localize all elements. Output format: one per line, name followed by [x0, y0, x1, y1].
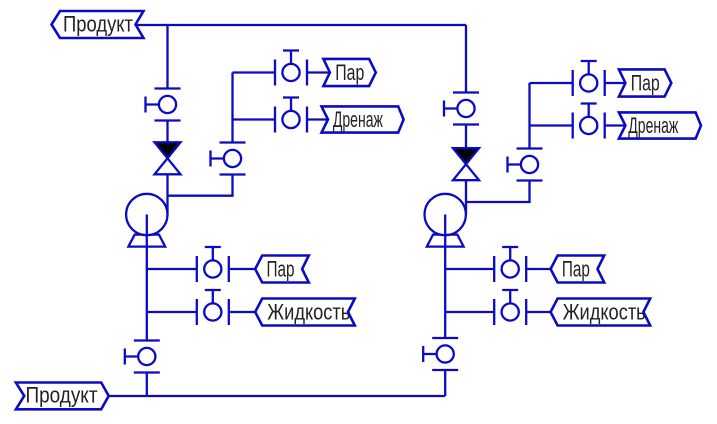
valve V4 (left drain) [275, 98, 307, 133]
flag Пар (right top) [619, 69, 671, 96]
wire right drain branch [530, 124, 626, 126]
wire left drain branch [233, 118, 329, 120]
valve V5 (left steam in) [197, 247, 229, 282]
flag Продукт (top inlet) [52, 11, 144, 38]
pump P2 (right) [425, 194, 466, 247]
wire left pump discharge [146, 247, 148, 396]
wire right pump top branch [466, 83, 530, 202]
wire bottom header [109, 395, 446, 397]
valve V14 (right bottom) [423, 338, 458, 370]
flag Продукт (bottom outlet) [16, 383, 109, 410]
pump P1 (left) [126, 194, 167, 247]
svg-text:Пар: Пар [335, 60, 364, 85]
flag Пар (right bottom) [551, 256, 605, 283]
valve V12 (right steam in) [494, 247, 526, 282]
svg-text:Дренаж: Дренаж [333, 107, 383, 132]
flag Дренаж (right) [619, 112, 701, 138]
check valve CV1 (left) [155, 142, 181, 174]
wire right pump discharge [444, 247, 446, 396]
svg-text:Продукт: Продукт [63, 11, 133, 36]
svg-text:Жидкость: Жидкость [563, 300, 646, 325]
valve V6 (left liquid) [197, 290, 229, 325]
wire left steam branch [233, 71, 330, 73]
valve V10 (right steam) [573, 61, 605, 96]
wire right main drop [465, 25, 467, 215]
valve V13 (right liquid) [494, 290, 526, 325]
valve V2 (left riser valve) [211, 143, 246, 175]
wire right steam-in branch [445, 268, 550, 270]
wire left main drop [166, 25, 168, 215]
valve V1 (left feed valve) [146, 89, 181, 121]
svg-text:Пар: Пар [631, 71, 660, 96]
valve V8 (right feed valve) [444, 93, 479, 125]
wire left pump top branch [168, 73, 233, 196]
wire right liquid branch [445, 311, 550, 313]
svg-text:Продукт: Продукт [26, 383, 98, 408]
flag Жидкость (right) [551, 299, 651, 326]
svg-text:Пар: Пар [562, 257, 590, 282]
flag Жидкость (left) [255, 299, 355, 326]
wire top header [136, 24, 467, 26]
wire left steam-in branch [147, 268, 255, 270]
flag Пар (left bottom) [255, 256, 309, 283]
svg-text:Пар: Пар [267, 257, 295, 282]
wire right steam branch [530, 82, 626, 84]
valve V7 (left bottom) [125, 341, 160, 373]
wire left liquid branch [147, 311, 255, 313]
flag Пар (left top) [323, 59, 375, 86]
valve V11 (right drain) [573, 104, 605, 139]
flag Дренаж (left) [322, 106, 404, 132]
valve V9 (right riser valve) [508, 149, 543, 181]
svg-text:Жидкость: Жидкость [267, 300, 350, 325]
check valve CV2 (right) [453, 148, 479, 180]
svg-text:Дренаж: Дренаж [628, 113, 678, 138]
valve V3 (left steam) [275, 51, 307, 86]
